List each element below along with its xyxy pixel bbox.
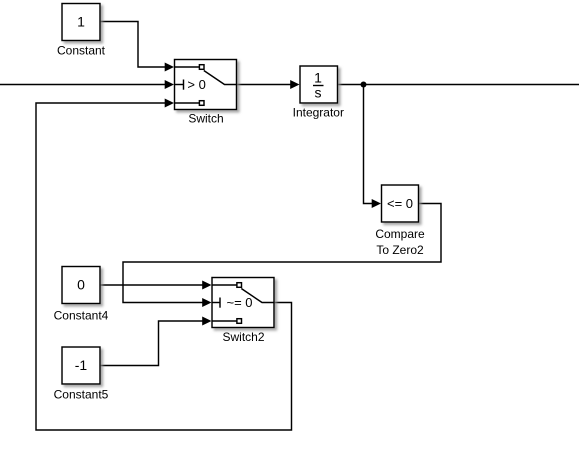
constant block Constant5 xyxy=(62,347,100,384)
arrowhead into Integrator input xyxy=(290,80,299,89)
svg-text:s: s xyxy=(315,85,322,101)
svg-text:Integrator: Integrator xyxy=(293,106,344,120)
svg-text:Switch: Switch xyxy=(188,112,223,126)
wire: Constant5 output to Switch2 bottom input xyxy=(100,321,204,366)
arrowhead into Switch control input xyxy=(165,80,174,89)
constant block Constant4 xyxy=(62,267,100,304)
compare block Compare To Zero2 xyxy=(382,185,419,222)
svg-text:<= 0: <= 0 xyxy=(387,196,413,211)
arrowhead into Switch2 control input xyxy=(202,298,211,307)
wire: Compare To Zero2 output loop to Switch2 control input xyxy=(123,204,441,303)
svg-text:To Zero2: To Zero2 xyxy=(376,243,424,257)
arrowhead into Switch top input xyxy=(165,63,174,72)
switch block Switch2 xyxy=(212,278,274,328)
arrowhead into Compare To Zero2 input xyxy=(372,199,381,208)
integrator block Integrator xyxy=(300,66,338,103)
svg-text:1: 1 xyxy=(77,14,85,30)
Switch2 port square bottom xyxy=(237,319,242,324)
svg-text:1: 1 xyxy=(314,70,322,86)
svg-text:Constant: Constant xyxy=(57,44,106,58)
Switch port square top xyxy=(199,65,204,70)
svg-text:Constant5: Constant5 xyxy=(54,387,109,401)
wire: Integrator output to right edge xyxy=(337,84,579,86)
Switch2 interior icon xyxy=(212,285,274,321)
node: junction on integrator output xyxy=(361,82,367,88)
wire: main input line into Switch control (middle) from left edge xyxy=(0,84,166,86)
switch block Switch xyxy=(175,60,237,110)
svg-text:-1: -1 xyxy=(75,357,88,373)
svg-text:~= 0: ~= 0 xyxy=(226,295,252,310)
arrowhead into Switch2 bottom input xyxy=(202,317,211,326)
wire: Switch2 output feedback loop to Switch bottom input xyxy=(36,103,292,430)
wire: Constant4 output to Switch2 top input xyxy=(100,284,204,286)
wire: junction down to Compare To Zero2 input xyxy=(364,85,374,204)
constant block Constant xyxy=(62,4,100,41)
svg-text:Compare: Compare xyxy=(375,227,425,241)
wire: Constant output to Switch top input xyxy=(100,22,166,68)
svg-text:Constant4: Constant4 xyxy=(54,308,109,322)
wire: Switch output to Integrator input xyxy=(237,84,292,86)
Switch port square bottom xyxy=(199,101,204,106)
blocks with drop shadows xyxy=(62,4,419,385)
svg-text:0: 0 xyxy=(77,277,85,293)
Switch2 port square top xyxy=(237,283,242,288)
arrowhead into Switch2 top input xyxy=(202,281,211,290)
svg-text:> 0: > 0 xyxy=(187,77,205,92)
arrowhead into Switch bottom input xyxy=(165,99,174,108)
Switch interior icon xyxy=(175,67,237,103)
svg-text:Switch2: Switch2 xyxy=(222,330,264,344)
